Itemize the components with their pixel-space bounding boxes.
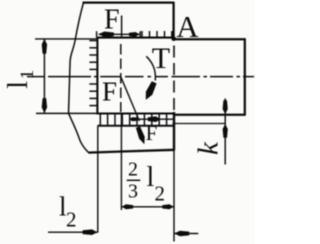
bottom serration band bottom edge xyxy=(97,125,174,127)
svg-text:2: 2 xyxy=(66,207,77,231)
bore rect top edge xyxy=(97,37,174,39)
torque T bold arrowhead xyxy=(146,81,157,100)
k upper arrowhead (down) xyxy=(223,100,228,114)
shaft top edge xyxy=(174,38,246,40)
band / hub inner right edge xyxy=(173,112,175,150)
2/3 l2 left arrowhead xyxy=(122,204,134,209)
dimension l2 right line xyxy=(174,233,198,235)
l1 top arrowhead xyxy=(42,39,47,54)
l1 bottom arrowhead xyxy=(42,98,47,113)
section line A (dashed) xyxy=(173,46,175,113)
band force line xyxy=(129,118,174,120)
force F top: bold left arrowhead xyxy=(98,32,114,38)
dimension l2 left line xyxy=(48,231,98,233)
hub top edge xyxy=(83,1,175,3)
2/3 l2 right arrowhead xyxy=(162,204,174,209)
dimension 2/3 l2 line xyxy=(121,206,174,208)
svg-text:F: F xyxy=(102,76,117,106)
bore rect left edge xyxy=(96,37,98,114)
top serration ticks xyxy=(142,31,172,38)
k lower arrowhead (up) xyxy=(223,124,228,138)
svg-text:T: T xyxy=(152,42,170,75)
svg-text:A: A xyxy=(176,9,199,44)
svg-text:3: 3 xyxy=(128,181,138,203)
svg-text:F: F xyxy=(104,4,120,35)
bore bottom long line (ext to left) xyxy=(36,112,97,114)
vertical line through hub center: solid top part xyxy=(121,16,123,38)
k extension thin line xyxy=(173,123,226,125)
l2 bold left-pointing arrowhead xyxy=(174,231,189,237)
bold diagonal arrowhead below band xyxy=(136,126,145,144)
svg-text:k: k xyxy=(193,141,225,155)
band small left arrowhead xyxy=(129,117,138,121)
svg-text:2: 2 xyxy=(155,181,166,205)
vertical extension line below center xyxy=(120,114,122,211)
svg-text:l: l xyxy=(3,81,34,89)
extension line left (x=97.8) xyxy=(97,126,99,233)
dimension l1 line xyxy=(43,39,45,113)
extension line right (x=174) xyxy=(173,150,175,242)
shaft bottom edge xyxy=(174,114,246,116)
svg-text:l: l xyxy=(147,162,155,193)
force F top: right arrowhead xyxy=(129,32,140,37)
junction dot at hub/shaft corner xyxy=(171,36,176,41)
hub bottom edge xyxy=(88,150,175,153)
label l1 (rotated) xyxy=(3,70,38,89)
l2 bold right-pointing arrowhead xyxy=(83,229,98,235)
svg-text:2: 2 xyxy=(128,159,138,181)
vertical dashed center line xyxy=(120,44,122,112)
diagonal force line of action xyxy=(121,77,140,121)
k dimension vertical line xyxy=(224,99,226,165)
torque T curved arrow xyxy=(146,56,155,80)
l1 top extension line xyxy=(35,38,97,40)
svg-text:1: 1 xyxy=(17,70,38,80)
label k (rotated) xyxy=(193,141,225,155)
force F top: end ticks xyxy=(96,31,98,37)
hub break wavy line xyxy=(69,3,89,153)
shaft right edge xyxy=(244,39,246,116)
band bold right arrowhead xyxy=(148,116,161,122)
hub right edge upper xyxy=(172,2,174,40)
force F top: line xyxy=(99,33,140,35)
horizontal dash-dot axis xyxy=(27,76,254,78)
svg-text:F: F xyxy=(146,121,158,145)
left serration ticks xyxy=(89,41,97,106)
band divider ticks xyxy=(100,114,166,126)
